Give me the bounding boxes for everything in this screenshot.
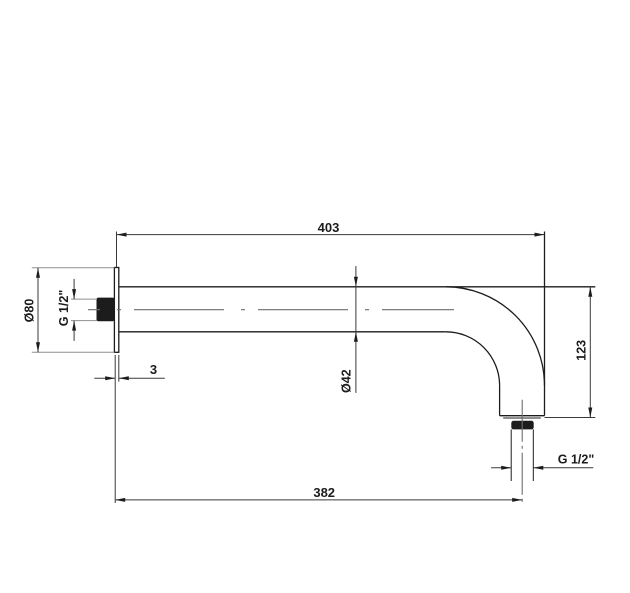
svg-text:Ø42: Ø42 bbox=[340, 369, 354, 393]
dimension 403: extension line left bbox=[116, 232, 118, 268]
svg-text:3: 3 bbox=[150, 362, 157, 377]
dimension O42: dimension line through tube bbox=[355, 266, 357, 393]
dimension O42: down arrowhead at tube top bbox=[354, 277, 358, 287]
centerline horizontal axis bbox=[88, 309, 454, 311]
dimension O42: up arrowhead at tube bottom bbox=[354, 332, 358, 342]
dimension 3 (flange thickness): extension line right bbox=[118, 355, 120, 382]
dimension G 1/2 outlet: right dimension line bbox=[533, 467, 593, 469]
dimension 123: extension line bottom bbox=[545, 417, 596, 419]
dimension 403: right arrowhead bbox=[535, 233, 545, 237]
svg-text:403: 403 bbox=[318, 220, 340, 235]
wall flange bbox=[114, 268, 118, 353]
dimension 3: left dimension line bbox=[94, 377, 115, 379]
svg-text:G 1/2": G 1/2" bbox=[57, 290, 71, 327]
dimension 403: dimension line bbox=[117, 234, 545, 236]
bend inner arc bbox=[446, 332, 500, 386]
wall thread nipple G 1/2 (black) bbox=[97, 298, 115, 322]
dimension 3: left-pointing arrowhead bbox=[119, 376, 129, 380]
dimension 403: left arrowhead bbox=[117, 233, 127, 237]
outlet nut (black) bbox=[511, 421, 533, 430]
dimension G 1/2 wall thread: upper leader line bbox=[73, 279, 75, 299]
dimension 382: right arrowhead bbox=[512, 498, 522, 502]
dimension 382: left arrowhead bbox=[115, 498, 125, 502]
dimension 3 (flange thickness): extension line left bbox=[114, 355, 116, 503]
bend outer arc bbox=[446, 287, 545, 386]
dimension G 1/2 wall thread: extension line top bbox=[71, 298, 97, 300]
dimension G 1/2 wall thread: extension line bottom bbox=[71, 320, 97, 322]
dimension G 1/2 wall thread: down arrowhead bbox=[72, 289, 76, 299]
shower arm top edge (continues right as 123 extension line) bbox=[119, 286, 596, 288]
dimension 123: bottom arrowhead bbox=[588, 408, 592, 418]
dimension 382: dimension line bbox=[115, 499, 522, 501]
svg-text:G 1/2": G 1/2" bbox=[558, 453, 595, 467]
dimension 123: dimension line bbox=[589, 287, 591, 418]
dimension O80: dimension line bbox=[37, 268, 39, 353]
dimension G 1/2 outlet: right-pointing arrowhead bbox=[501, 466, 511, 470]
vertical tube right edge (continues up as 403 extension line) bbox=[544, 232, 546, 416]
outlet pipe right edge (continues down as G 1/2 extension line) bbox=[532, 429, 534, 481]
outlet washer lip line bbox=[503, 417, 541, 419]
dimension G 1/2 outlet: left-pointing arrowhead bbox=[533, 466, 543, 470]
svg-text:123: 123 bbox=[575, 340, 589, 361]
dimension O80: top arrowhead bbox=[36, 268, 40, 278]
dimension O80: extension line bottom bbox=[32, 351, 115, 353]
dimension 123: top arrowhead bbox=[588, 287, 592, 297]
dimension O80: extension line top bbox=[32, 267, 115, 269]
dimension 3: right dimension line bbox=[119, 377, 165, 379]
vertical tube bottom edge bbox=[500, 415, 545, 417]
outlet pipe left edge (continues down as G 1/2 extension line) bbox=[510, 429, 512, 481]
dimension G 1/2 outlet: left dimension line bbox=[491, 467, 511, 469]
dimension O80: bottom arrowhead bbox=[36, 342, 40, 352]
svg-text:Ø80: Ø80 bbox=[23, 299, 37, 323]
dimension G 1/2 wall thread: up arrowhead bbox=[72, 321, 76, 331]
svg-text:382: 382 bbox=[313, 485, 335, 500]
dimension 3: right-pointing arrowhead bbox=[105, 376, 115, 380]
shower arm bottom edge bbox=[119, 331, 446, 333]
dimension G 1/2 wall thread: lower leader line bbox=[73, 321, 75, 341]
vertical tube left edge bbox=[499, 386, 501, 416]
centerline vertical outlet axis bbox=[521, 400, 523, 503]
